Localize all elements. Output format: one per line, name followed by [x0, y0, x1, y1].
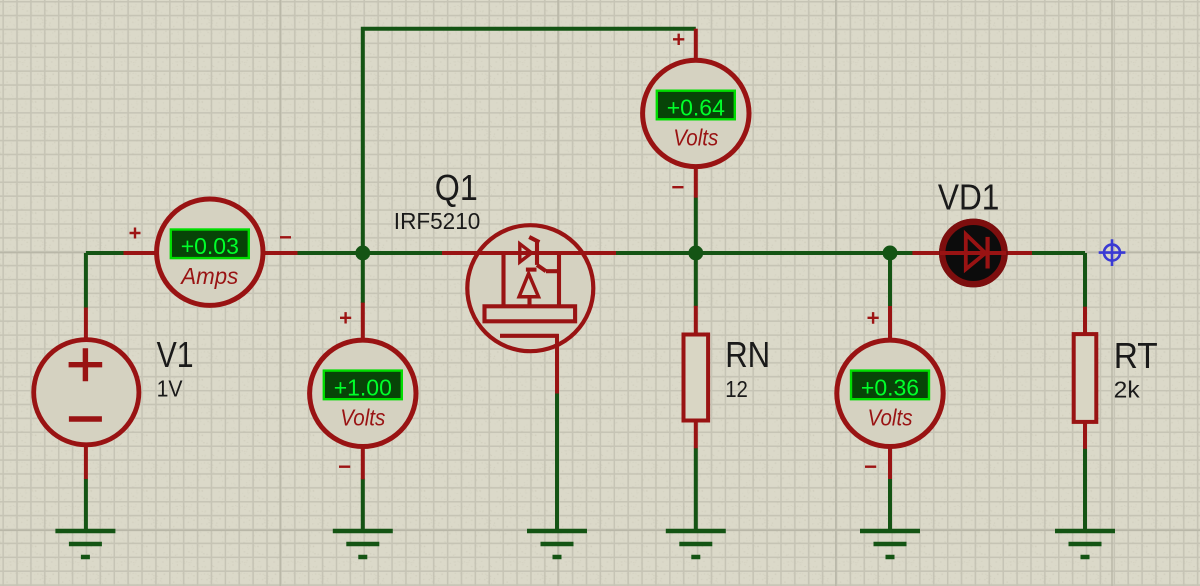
ammeter plus marker [130, 228, 141, 239]
svg-text:IRF5210: IRF5210 [394, 208, 481, 234]
pin RN top [694, 306, 698, 336]
svg-text:1V: 1V [157, 376, 184, 402]
node junction at voltmeter +0.36 branch [883, 246, 898, 261]
pin voltmeter +0.64 bottom [694, 166, 698, 198]
pin ammeter right [265, 251, 298, 255]
svg-text:2k: 2k [1114, 377, 1141, 403]
ammeter minus marker [280, 236, 291, 238]
ammeter display [171, 230, 249, 259]
voltmeter +0.36 plus marker [868, 312, 879, 324]
voltmeter +0.36 minus marker [865, 466, 876, 468]
VD1 cathode bar [985, 237, 989, 269]
wire main node to RN [694, 253, 698, 307]
voltmeter +0.36 display [851, 371, 929, 400]
wire main net: VD1 to right corner [1031, 251, 1085, 255]
svg-text:12: 12 [725, 376, 748, 402]
node junction at voltmeter +1.00 branch [355, 246, 370, 261]
wire voltmeter +0.36 to ground [888, 479, 892, 532]
ammeter body [157, 199, 263, 305]
wire RN to ground [694, 448, 698, 531]
wire right corner down to RT [1083, 253, 1087, 308]
svg-text:VD1: VD1 [938, 177, 1000, 218]
pin V1 bottom [84, 444, 88, 479]
pin RT top [1083, 307, 1087, 336]
voltmeter +0.64 minus marker [672, 186, 683, 188]
wire V1 branch vertical [84, 253, 88, 309]
wire node to voltmeter +0.36 [888, 253, 892, 307]
voltmeter +1.00 minus marker [339, 466, 350, 468]
voltmeter +1.00 body [310, 340, 416, 446]
svg-text:V1: V1 [157, 334, 194, 375]
resistor RN body [684, 335, 709, 421]
voltmeter +0.64 plus marker [673, 34, 684, 45]
voltage source V1 body [34, 340, 139, 445]
svg-text:Volts: Volts [868, 404, 913, 430]
pin RT bottom [1083, 421, 1087, 449]
pin voltmeter +0.36 bottom [888, 446, 892, 479]
ground voltmeter +0.36 [860, 531, 920, 557]
wire main net: Q1 to VD1 [615, 251, 913, 255]
svg-text:RT: RT [1114, 335, 1158, 376]
Q1 inner MOSFET symbol [485, 237, 576, 336]
diode VD1 body [939, 219, 1008, 288]
svg-text:Q1: Q1 [435, 167, 478, 208]
voltmeter +0.36 body [837, 340, 943, 446]
pin voltmeter +0.64 top [694, 29, 698, 61]
wire voltmeter +1.00 to ground [361, 479, 365, 532]
ground V1 [55, 531, 115, 557]
ground RN [666, 531, 726, 557]
node junction at RN branch [688, 246, 703, 261]
pin V1 top [84, 308, 88, 342]
VD1 inner wire [940, 251, 1006, 255]
VD1 diode triangle [966, 234, 986, 269]
svg-text:Volts: Volts [340, 404, 385, 430]
ground RT [1055, 531, 1115, 557]
pin ammeter left [124, 251, 157, 255]
svg-text:Amps: Amps [179, 263, 238, 289]
transistor Q1 body circle [467, 225, 593, 351]
wire top net: riser and horizontal run to voltmeter +0.64 [363, 29, 696, 303]
voltmeter +1.00 display [324, 371, 402, 400]
wire Q1 drain to ground [555, 393, 559, 531]
pin VD1 left [912, 251, 940, 255]
wire RT to ground [1083, 448, 1087, 531]
svg-text:+0.36: +0.36 [861, 374, 919, 400]
V1 minus symbol [69, 416, 102, 421]
svg-text:+1.00: +1.00 [334, 374, 392, 400]
wire V1 to ground [84, 479, 88, 532]
svg-text:RN: RN [725, 334, 770, 375]
pin voltmeter +0.36 top [888, 306, 892, 341]
voltmeter +0.64 body [643, 60, 749, 166]
wire voltmeter +0.64 to main node [694, 198, 698, 254]
svg-text:+0.03: +0.03 [181, 233, 239, 259]
wire main net through Q1 (red) [442, 251, 616, 255]
wire main net: V1 corner to ammeter [86, 251, 124, 255]
Q1 drain pin (red) [555, 334, 559, 394]
ground Q1 [527, 531, 587, 557]
V1 plus symbol [69, 348, 103, 381]
svg-text:+0.64: +0.64 [667, 94, 725, 120]
svg-text:Volts: Volts [673, 124, 718, 150]
pin voltmeter +1.00 bottom [361, 446, 365, 479]
voltmeter +0.64 display [657, 91, 735, 120]
ground voltmeter +1.00 [333, 531, 393, 557]
wire main net: ammeter to Q1 [297, 251, 442, 255]
resistor RT body [1074, 334, 1097, 422]
origin crosshair marker [1099, 239, 1126, 266]
pin voltmeter +1.00 top [361, 303, 365, 341]
pin RN bottom [694, 420, 698, 449]
pin VD1 right [1006, 251, 1032, 255]
voltmeter +1.00 plus marker [340, 312, 351, 323]
